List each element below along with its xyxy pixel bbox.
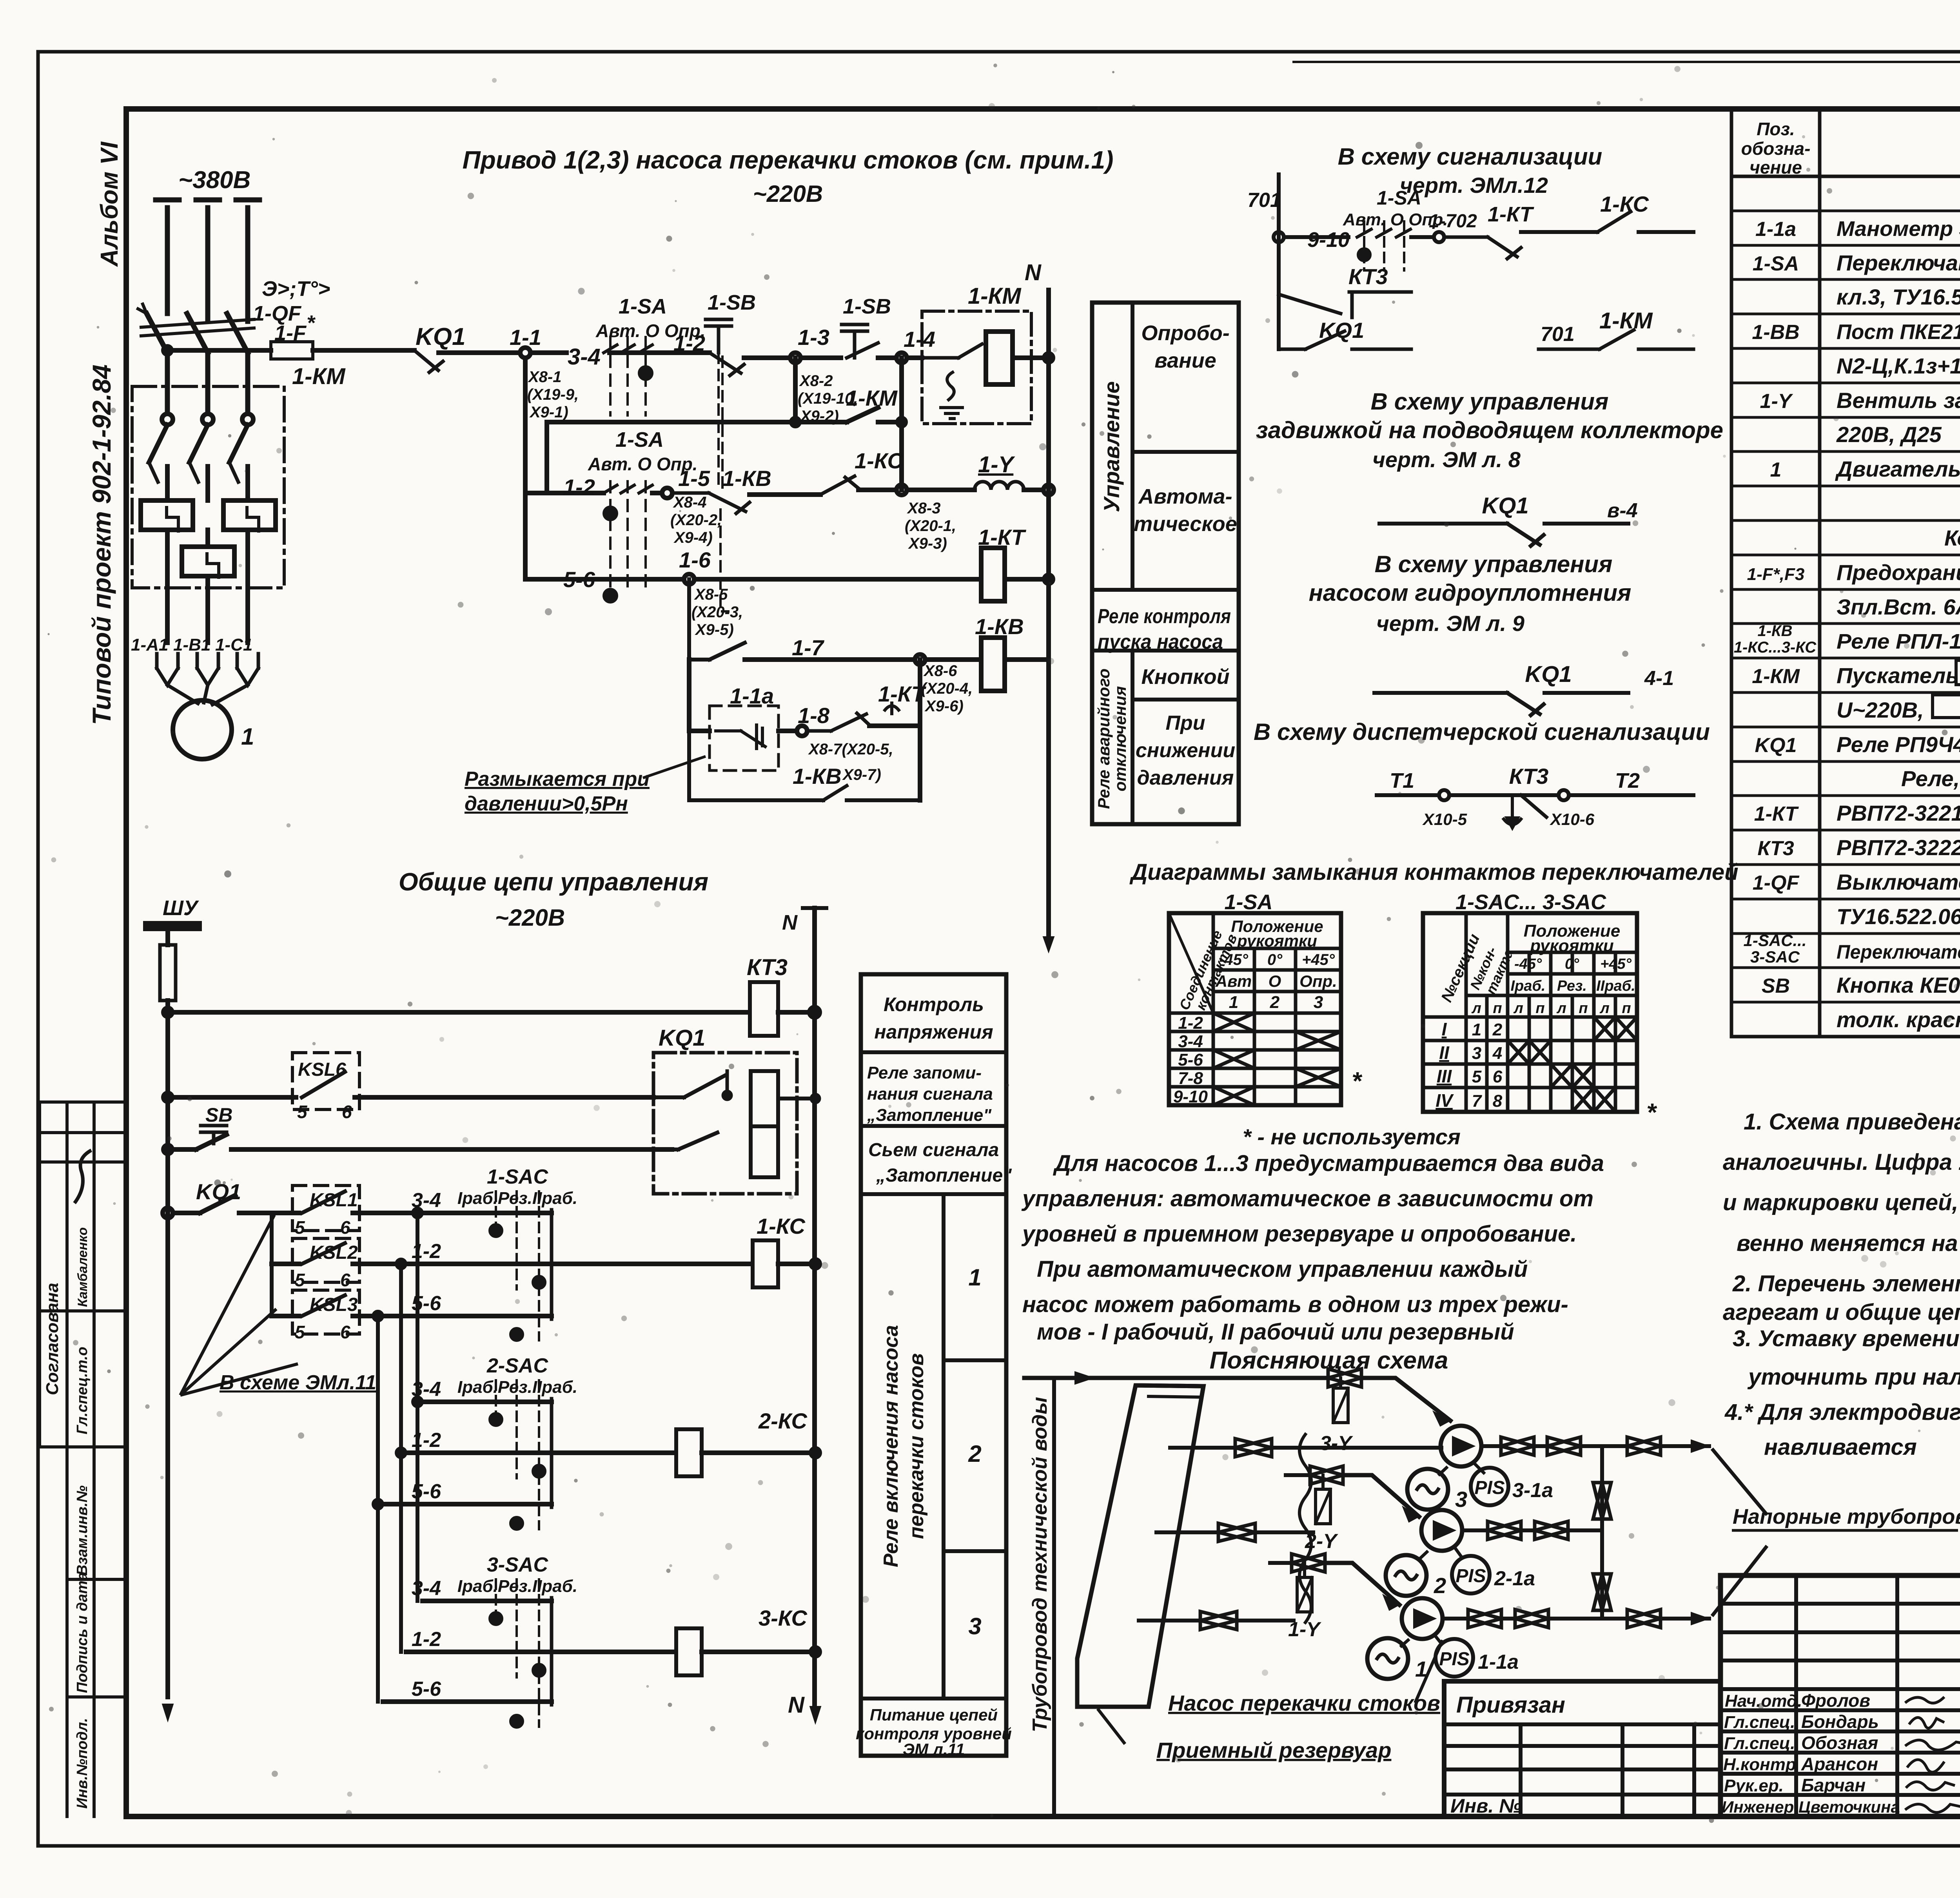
svg-text:9-10: 9-10: [1307, 228, 1350, 252]
header vertical: [1600, 1446, 1604, 1619]
svg-text:Выключатель АЕ20: Выключатель АЕ20: [1837, 870, 1960, 894]
svg-text:Х9-3): Х9-3): [908, 535, 947, 552]
svg-text:1. Схема приведена для привода: 1. Схема приведена для привода 1. Для пр…: [1744, 1109, 1960, 1135]
svg-text:2. Перечень элементов приведен: 2. Перечень элементов приведен на один н…: [1732, 1271, 1960, 1296]
motor 2: [1386, 1555, 1426, 1596]
svg-text:2-Y: 2-Y: [1305, 1530, 1338, 1553]
svg-text:мов - I рабочий, II рабочий и: мов - I рабочий, II рабочий или резервны…: [1037, 1319, 1514, 1345]
svg-text:Фролов: Фролов: [1801, 1690, 1870, 1711]
svg-text:(Х20-3,: (Х20-3,: [691, 604, 743, 621]
svg-text:Барчан: Барчан: [1801, 1775, 1866, 1795]
1-KM coil box dash-dot: [922, 311, 1031, 424]
svg-text:1: 1: [1229, 993, 1238, 1012]
leader lines to KSL: [180, 1215, 298, 1395]
svg-text:кл.3, ТУ16.526.308-77: кл.3, ТУ16.526.308-77: [1837, 285, 1960, 309]
svg-text:ЭМ л.11: ЭМ л.11: [903, 1740, 965, 1758]
svg-text:Реле аварийного: Реле аварийного: [1094, 669, 1113, 809]
svg-text:PIS: PIS: [1474, 1477, 1504, 1498]
svg-text:KSL1: KSL1: [310, 1190, 358, 1211]
KM contact poles: [162, 414, 173, 425]
aux line y1077: [547, 408, 902, 422]
svg-text:Вентиль запорный 15кч888рСВМ: Вентиль запорный 15кч888рСВМ,: [1837, 388, 1960, 413]
svg-text:220В, Д25: 220В, Д25: [1836, 422, 1942, 447]
svg-text:701: 701: [1247, 189, 1281, 212]
svg-text:KQ1: KQ1: [1525, 662, 1572, 687]
svg-text:Iраб.Рез.IIраб.: Iраб.Рез.IIраб.: [457, 1378, 577, 1397]
SHU bus and F3: [144, 896, 826, 1724]
svg-text:1-КВ: 1-КВ: [722, 466, 771, 491]
breaker 1-QF contacts: [147, 314, 248, 353]
second 1-SB: [842, 324, 867, 358]
gauge PIS 2-1a: [1452, 1556, 1490, 1593]
receiving tank: [1077, 1385, 1203, 1707]
svg-text:0°: 0°: [1565, 956, 1579, 972]
svg-text:1-КМ: 1-КМ: [292, 364, 346, 389]
svg-text:Управление: Управление: [1099, 381, 1124, 512]
svg-text:1-КС...3-КС: 1-КС...3-КС: [1734, 639, 1817, 656]
svg-text:1-2: 1-2: [412, 1429, 441, 1452]
svg-text:КТ3: КТ3: [747, 955, 788, 980]
svg-text:(Х20-2,: (Х20-2,: [670, 511, 722, 529]
svg-text:О: О: [1269, 972, 1281, 990]
svg-text:1-Y: 1-Y: [1760, 390, 1793, 413]
svg-text:SB: SB: [1762, 975, 1790, 997]
svg-text:1-6: 1-6: [679, 547, 711, 572]
svg-text:1-SAC: 1-SAC: [487, 1166, 548, 1188]
svg-text:Реле контроля: Реле контроля: [1098, 605, 1231, 628]
svg-text:КТ3: КТ3: [1509, 764, 1548, 789]
svg-text:Гл.спец.т.о: Гл.спец.т.о: [74, 1347, 91, 1434]
svg-text:5: 5: [295, 1322, 305, 1342]
svg-text:В схему сигнализации: В схему сигнализации: [1338, 143, 1602, 170]
svg-text:SB: SB: [205, 1104, 232, 1126]
svg-text:Х9-6): Х9-6): [924, 698, 964, 715]
PRIVYAZAN BOX: [1444, 1681, 1720, 1816]
svg-text:IV: IV: [1436, 1090, 1454, 1111]
svg-text:Зпл.Вст. 6А, ТУ 16.522.112-74: Зпл.Вст. 6А, ТУ 16.522.112-74: [1837, 595, 1960, 619]
svg-text:3: 3: [1472, 1044, 1481, 1063]
left strip outer lines: [65, 1102, 69, 1816]
svg-text:~220В: ~220В: [495, 905, 565, 931]
svg-text:Переключатель УП5312-С45У3,ТУ1: Переключатель УП5312-С45У3,ТУ16.524.074-…: [1837, 941, 1960, 963]
svg-text:Рук.ер.: Рук.ер.: [1724, 1776, 1784, 1795]
svg-text:1-ВВ: 1-ВВ: [1752, 321, 1799, 344]
relay coil 2-KC: [676, 1429, 702, 1476]
svg-text:перекачки стоков: перекачки стоков: [905, 1353, 928, 1539]
svg-text:давления: давления: [1137, 767, 1234, 789]
rung 1-7: [689, 579, 745, 660]
manometer rung 1-8: [691, 660, 709, 731]
svg-text:чение: чение: [1749, 157, 1802, 178]
svg-text:рукоятки: рукоятки: [1530, 936, 1614, 955]
discharge pipe 3: [1481, 1444, 1709, 1448]
svg-text:РВП72-3221-00УХЛ4, U~220В: РВП72-3221-00УХЛ4, U~220В: [1837, 801, 1960, 825]
svg-text:1-702: 1-702: [1429, 211, 1477, 232]
svg-text:РВП72-3222-00УХЛ4, U~220В: РВП72-3222-00УХЛ4, U~220В: [1837, 835, 1960, 860]
svg-text:Т2: Т2: [1615, 769, 1640, 792]
svg-text:Х8-3: Х8-3: [907, 500, 941, 517]
svg-text:В схеме ЭМл.11: В схеме ЭМл.11: [220, 1371, 376, 1394]
svg-text:Iраб.: Iраб.: [1511, 978, 1546, 994]
svg-text:Манометр электроконтактный ЭКМ: Манометр электроконтактный ЭКМ-1У: [1837, 217, 1960, 241]
svg-text:Питание цепей: Питание цепей: [870, 1706, 998, 1724]
svg-text:л: л: [1513, 1000, 1523, 1017]
svg-text:Пост ПКЕ212-2У3,3/4."N1-Ц,Ч,1з: Пост ПКЕ212-2У3,3/4."N1-Ц,Ч,1з+1р,„Пуск,…: [1837, 320, 1960, 344]
1-Y: [1292, 1554, 1325, 1572]
svg-text:1-SA: 1-SA: [619, 295, 667, 318]
svg-text:Напорные трубопроводы: Напорные трубопроводы: [1733, 1505, 1960, 1528]
svg-text:аналогичны. Цифра 1 в левой ча: аналогичны. Цифра 1 в левой части обозна…: [1723, 1149, 1960, 1175]
svg-text:U~220В,: U~220В,: [1837, 698, 1924, 722]
3-SAC: [383, 1601, 552, 1702]
svg-text:1-SA: 1-SA: [615, 428, 664, 451]
svg-text:Пускатель: Пускатель: [1837, 663, 1959, 688]
svg-text:1-7: 1-7: [792, 635, 825, 660]
svg-text:(Х20-1,: (Х20-1,: [905, 517, 956, 535]
svg-text:2: 2: [1434, 1573, 1446, 1598]
svg-text:Приемный резервуар: Приемный резервуар: [1156, 1738, 1391, 1762]
svg-text:Общие цепи управления: Общие цепи управления: [399, 868, 708, 896]
motor circle: [173, 700, 232, 759]
svg-text:3-1а: 3-1а: [1512, 1479, 1553, 1502]
svg-text:Цветочкина: Цветочкина: [1798, 1798, 1900, 1816]
svg-text:п: п: [1535, 1000, 1544, 1017]
svg-text:1-2: 1-2: [412, 1628, 441, 1651]
svg-text:1-Y: 1-Y: [978, 452, 1016, 477]
svg-text:снижении: снижении: [1136, 739, 1235, 762]
solenoid coil 1-Y: [975, 482, 1024, 490]
svg-text:N: N: [782, 911, 798, 934]
svg-text:5-6: 5-6: [412, 1480, 441, 1503]
svg-text:Сьем сигнала: Сьем сигнала: [868, 1140, 999, 1160]
svg-text:пуска насоса: пуска насоса: [1098, 631, 1223, 653]
svg-text:Поз.: Поз.: [1757, 119, 1795, 139]
svg-text:1-КМ: 1-КМ: [1599, 308, 1653, 334]
svg-text:N: N: [1025, 260, 1042, 285]
svg-text:Х9-7): Х9-7): [842, 766, 881, 783]
svg-text:3-КС: 3-КС: [759, 1606, 808, 1630]
svg-text:1-КВ: 1-КВ: [975, 614, 1024, 639]
svg-text:4: 4: [1492, 1044, 1502, 1063]
svg-text:Реле запоми-: Реле запоми-: [867, 1063, 982, 1082]
svg-text:0°: 0°: [1267, 951, 1283, 968]
svg-text:КТ3: КТ3: [1348, 264, 1388, 289]
svg-text:„Затопление": „Затопление": [867, 1106, 992, 1125]
1-SA group 1 dashed: [610, 337, 646, 415]
svg-text:При автоматическом управлен: При автоматическом управлении каждый: [1037, 1256, 1528, 1282]
svg-text:Х9-5): Х9-5): [695, 621, 734, 638]
pump 1: [1402, 1598, 1443, 1639]
svg-text:1-КМ: 1-КМ: [968, 283, 1022, 309]
node 1-1: [520, 348, 530, 358]
svg-text:5-6: 5-6: [412, 1678, 441, 1700]
svg-text:1-КТ: 1-КТ: [978, 525, 1027, 549]
svg-text:*: *: [1646, 1098, 1657, 1126]
svg-text:5-6: 5-6: [412, 1292, 441, 1315]
svg-text:Кнопкой: Кнопкой: [1141, 665, 1229, 689]
svg-text:1-КТ: 1-КТ: [878, 682, 927, 706]
svg-text:Камбаленко: Камбаленко: [75, 1227, 90, 1307]
dashed link 1-SB to 1-KB: [717, 353, 720, 490]
svg-text:1-QF: 1-QF: [1753, 872, 1800, 894]
svg-text:Альбом VI: Альбом VI: [96, 141, 123, 267]
svg-text:3: 3: [968, 1613, 981, 1639]
svg-text:KSL2: KSL2: [310, 1242, 358, 1263]
svg-text:черт. ЭМ л. 8: черт. ЭМ л. 8: [1372, 447, 1521, 472]
svg-text:1-SA: 1-SA: [1377, 187, 1421, 209]
svg-text:6: 6: [340, 1322, 350, 1342]
svg-text:ШУ: ШУ: [163, 896, 199, 920]
svg-text:KSL6: KSL6: [298, 1059, 346, 1080]
contact KQ1: [414, 350, 443, 372]
motor 3: [1407, 1469, 1448, 1510]
svg-text:Типовой проект 902-1-92.84: Типовой проект 902-1-92.84: [87, 364, 116, 725]
svg-text:2: 2: [968, 1441, 981, 1467]
svg-text:Подпись и дата: Подпись и дата: [74, 1572, 91, 1693]
svg-text:Э>;Т°>: Э>;Т°>: [262, 277, 330, 301]
svg-text:KQ1: KQ1: [659, 1025, 705, 1051]
svg-text:Кнопка КЕ011У3, исполн.4,: Кнопка КЕ011У3, исполн.4,: [1837, 973, 1960, 997]
svg-text:1-8: 1-8: [798, 703, 830, 728]
svg-text:Переключатель ПКП25-50-57-: Переключатель ПКП25-50-57-У3,: [1837, 250, 1960, 275]
svg-text:Т1: Т1: [1390, 769, 1414, 792]
svg-text:давлении>0,5Рн: давлении>0,5Рн: [465, 792, 628, 815]
verticals from node 1-1: [525, 358, 547, 579]
motor 1: [1367, 1638, 1408, 1679]
svg-text:*: *: [1352, 1067, 1363, 1095]
svg-text:1-2: 1-2: [563, 475, 595, 499]
svg-text:Обозная: Обозная: [1801, 1733, 1878, 1753]
svg-text:Х8-4: Х8-4: [673, 494, 707, 511]
fuse 1-F: [271, 342, 313, 359]
POWER CIRCUIT: [138, 200, 260, 413]
svg-text:обозна-: обозна-: [1741, 138, 1811, 159]
svg-text:1-1а: 1-1а: [730, 683, 774, 708]
svg-text:3-4: 3-4: [412, 1378, 441, 1401]
svg-text:1-КТ: 1-КТ: [1754, 803, 1799, 825]
svg-text:3-4: 3-4: [568, 344, 601, 370]
svg-text:черт. ЭМл.12: черт. ЭМл.12: [1400, 173, 1548, 198]
svg-text:Предохранитель ПРС-6У3-П,: Предохранитель ПРС-6У3-П,: [1837, 560, 1960, 585]
svg-text:Гл.спец.: Гл.спец.: [1724, 1734, 1795, 1753]
svg-text:Х8-7(Х20-5,: Х8-7(Х20-5,: [808, 741, 893, 758]
svg-text:Х10-6: Х10-6: [1550, 810, 1595, 828]
1-SAC: [447, 1213, 552, 1316]
svg-text:1-КТ: 1-КТ: [1488, 203, 1534, 226]
svg-text:N: N: [788, 1692, 805, 1718]
phase bus B: [205, 208, 211, 321]
svg-text:Iраб.Рез.IIраб.: Iраб.Рез.IIраб.: [457, 1189, 577, 1208]
svg-text:1-SAC...: 1-SAC...: [1743, 931, 1806, 950]
MIDDLE COLUMN TABLE (Управление...): [1092, 303, 1239, 824]
svg-text:задвижкой на подводящем коллек: задвижкой на подводящем коллекторе: [1256, 417, 1723, 443]
PARAGRAPH: [1021, 1151, 1604, 1345]
svg-text:-45°: -45°: [1514, 956, 1542, 972]
svg-text:Х9-2): Х9-2): [800, 408, 839, 425]
svg-text:насосом гидроуплотнения: насосом гидроуплотнения: [1309, 580, 1632, 606]
node 1-3: [790, 353, 800, 363]
svg-text:Привязан: Привязан: [1456, 1692, 1565, 1718]
svg-text:Опр.: Опр.: [1299, 972, 1337, 990]
svg-text:(Х19-9,: (Х19-9,: [527, 386, 579, 403]
svg-text:управления: автоматическое в: управления: автоматическое в зависимости…: [1021, 1186, 1593, 1211]
svg-text:3: 3: [1455, 1487, 1467, 1512]
svg-text:1-А1: 1-А1: [131, 635, 168, 654]
svg-text:KQ1: KQ1: [1755, 734, 1797, 757]
svg-text:N2-Ц,К.1з+1р,„Стоп", ТУ16.526: N2-Ц,К.1з+1р,„Стоп", ТУ16.526.216-78: [1837, 353, 1960, 378]
leader from note to 1-1a box: [643, 756, 706, 778]
svg-text:п: п: [1622, 1000, 1631, 1017]
risers: [378, 1213, 417, 1504]
svg-text:л: л: [1599, 1000, 1610, 1017]
svg-text:Инв. №: Инв. №: [1450, 1795, 1521, 1817]
svg-text:1-F*,F3: 1-F*,F3: [1747, 565, 1805, 584]
KC coils: [552, 1262, 753, 1266]
svg-text:Трубопровод технической воды: Трубопровод технической воды: [1029, 1397, 1051, 1732]
relay coil 1-KV: [981, 638, 1005, 691]
rung 5-6 (1-6): [525, 577, 684, 582]
svg-text:1-В1: 1-В1: [173, 635, 211, 654]
svg-text:I: I: [1442, 1019, 1447, 1039]
svg-text:2: 2: [1492, 1020, 1503, 1039]
svg-text:2-1а: 2-1а: [1494, 1567, 1535, 1590]
svg-text:(Х20-4,: (Х20-4,: [921, 680, 973, 697]
svg-text:1: 1: [1770, 459, 1782, 481]
svg-text:тическое: тическое: [1134, 512, 1237, 536]
phase bus A: [165, 208, 170, 314]
1-KT button symbol near 1-8: [884, 702, 900, 715]
discharge pipe 2: [1462, 1528, 1602, 1532]
fork to right: [1713, 1450, 1766, 1615]
svg-text:агрегат и общие цепи.: агрегат и общие цепи.: [1723, 1300, 1960, 1325]
svg-text:При: При: [1166, 712, 1205, 734]
thermal hooks inside: [167, 508, 259, 577]
svg-text:Комплектное устройство: Комплектное устройство: [1944, 526, 1960, 550]
svg-text:венно меняется на 2 и 3.: венно меняется на 2 и 3.: [1737, 1231, 1960, 1256]
svg-text:*: *: [307, 311, 316, 335]
2-SAC: [383, 1402, 552, 1504]
svg-text:вание: вание: [1154, 349, 1216, 372]
rung SB y2933: [163, 1145, 172, 1154]
svg-text:5: 5: [297, 1102, 308, 1122]
svg-text:В схему диспетчерской сигнализ: В схему диспетчерской сигнализации: [1254, 719, 1710, 745]
N bus: [1044, 353, 1053, 362]
svg-text:Насос перекачки стоков: Насос перекачки стоков: [1168, 1691, 1440, 1715]
svg-text:1-5: 1-5: [678, 466, 710, 491]
svg-text:3-Y: 3-Y: [1320, 1432, 1353, 1455]
svg-text:1-1а: 1-1а: [1478, 1651, 1519, 1673]
2-Y: [1310, 1466, 1343, 1484]
thermal elements: [167, 431, 248, 500]
top pipe with arrow: [1024, 1376, 1328, 1380]
svg-text:Двигатель 4А: Двигатель 4А: [1835, 457, 1960, 481]
svg-text:+45°: +45°: [1302, 951, 1335, 968]
svg-text:Арансон: Арансон: [1801, 1754, 1878, 1774]
svg-text:Х8-5: Х8-5: [694, 586, 728, 603]
SAC groups: [374, 1191, 820, 1727]
svg-text:3: 3: [1314, 993, 1323, 1012]
svg-text:Контроль: Контроль: [884, 993, 984, 1015]
signatures squiggles: [1905, 1697, 1960, 1813]
TITLE BLOCK: [1720, 1575, 1960, 1816]
phase bus C: [245, 208, 250, 321]
svg-text:1: 1: [1472, 1020, 1481, 1039]
svg-text:III: III: [1437, 1066, 1452, 1086]
svg-text:1-2: 1-2: [1178, 1013, 1203, 1033]
svg-text:1-КС: 1-КС: [855, 448, 904, 473]
701 1-KM contact: [1539, 330, 1693, 349]
rung 1-2 (1-5): [525, 491, 604, 495]
gauge PIS 3-1a: [1471, 1468, 1508, 1505]
svg-text:толк. красн., ТУ16.526.407-7: толк. красн., ТУ16.526.407-79: [1837, 1007, 1960, 1032]
svg-text:1-SA: 1-SA: [1753, 252, 1799, 275]
svg-text:1-3: 1-3: [798, 325, 829, 350]
svg-text:1: 1: [968, 1264, 981, 1291]
svg-text:1-4: 1-4: [904, 327, 935, 352]
svg-text:1-КМ: 1-КМ: [1752, 665, 1800, 688]
svg-text:5-6: 5-6: [1178, 1050, 1203, 1070]
svg-text:5: 5: [295, 1270, 305, 1290]
svg-text:1-КВ: 1-КВ: [793, 764, 842, 789]
svg-text:уточнить при наладке и эксплуа: уточнить при наладке и эксплуатации.: [1747, 1364, 1960, 1390]
svg-text:4-1: 4-1: [1644, 667, 1674, 690]
svg-text:6: 6: [340, 1217, 350, 1238]
svg-text:1-1: 1-1: [510, 325, 541, 350]
svg-text:1-SB: 1-SB: [708, 291, 756, 314]
svg-text:1-SB: 1-SB: [843, 295, 891, 318]
PARTS TABLE: [1731, 109, 1960, 1037]
svg-text:напряжения: напряжения: [874, 1021, 993, 1043]
svg-text:+45°: +45°: [1600, 956, 1632, 972]
pump connections: [1436, 1464, 1484, 1644]
svg-text:4.* Для электродвигателей мощн: 4.* Для электродвигателей мощностью до 7…: [1724, 1399, 1960, 1425]
svg-text:6: 6: [340, 1270, 350, 1290]
svg-text:1-КВ: 1-КВ: [1757, 622, 1792, 640]
relay coil KT3: [750, 982, 778, 1036]
svg-text:1-КС: 1-КС: [1600, 192, 1649, 216]
svg-text:Автома-: Автома-: [1138, 485, 1232, 508]
svg-text:Х9-1): Х9-1): [529, 404, 568, 421]
svg-text:Гл.спец.: Гл.спец.: [1724, 1713, 1795, 1732]
svg-text:IIраб.: IIраб.: [1596, 978, 1635, 994]
svg-text:Реле включения насоса: Реле включения насоса: [880, 1325, 902, 1567]
svg-text:Взам.инв.№: Взам.инв.№: [74, 1485, 91, 1575]
svg-text:насос может работать в одн: насос может работать в одном из трех реж…: [1022, 1292, 1568, 1317]
svg-text:Согласована: Согласована: [43, 1283, 62, 1395]
svg-text:6: 6: [1493, 1067, 1503, 1086]
svg-text:КТ3: КТ3: [1757, 837, 1794, 860]
svg-text:2: 2: [1270, 993, 1280, 1012]
svg-text:701: 701: [1541, 323, 1575, 346]
svg-text:5: 5: [295, 1217, 305, 1238]
svg-text:1: 1: [241, 723, 254, 750]
relay coil 1-KC: [753, 1240, 778, 1287]
svg-text:Х9-4): Х9-4): [673, 529, 713, 546]
svg-text:1-С1: 1-С1: [215, 635, 252, 654]
svg-text:л: л: [1471, 1000, 1481, 1017]
svg-text:ТУ16.522.064-82: ТУ16.522.064-82: [1837, 904, 1960, 929]
svg-text:5: 5: [1472, 1067, 1482, 1086]
svg-text:1-2: 1-2: [673, 331, 705, 355]
svg-text:Бондарь: Бондарь: [1801, 1711, 1879, 1732]
svg-text:„Затопление": „Затопление": [876, 1165, 1012, 1186]
rung KSL6 y2800: [163, 1093, 172, 1102]
discharge pipe 1: [1443, 1617, 1709, 1621]
contactor 1-KM power box (dash-dot): [132, 386, 284, 588]
svg-text:Реле РПЛ-12204, U~220В,ТУ16.52: Реле РПЛ-12204, U~220В,ТУ16.523.554-78: [1837, 630, 1960, 653]
svg-text:3-4: 3-4: [1178, 1032, 1203, 1051]
svg-text:Для насосов 1...3 предусмат: Для насосов 1...3 предусматривается два …: [1053, 1151, 1604, 1176]
